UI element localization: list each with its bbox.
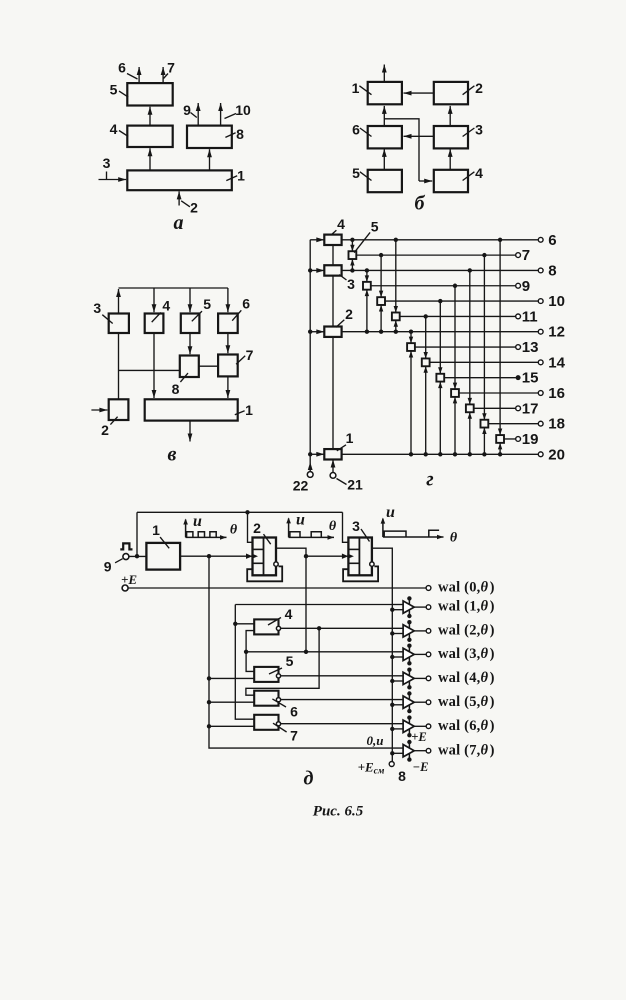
svg-text:3: 3 [347,276,355,292]
svg-text:+Eсм: +Eсм [358,760,385,777]
svg-text:u: u [296,512,305,529]
svg-text:5: 5 [110,82,118,98]
svg-text:1: 1 [237,168,245,184]
svg-text:2: 2 [475,80,483,96]
svg-text:2: 2 [101,422,109,438]
svg-text:21: 21 [347,477,363,493]
svg-text:Рис. 6.5: Рис. 6.5 [313,804,364,820]
svg-text:6: 6 [548,232,556,249]
svg-text:wal (6,θ ): wal (6,θ ) [438,718,495,734]
svg-text:9: 9 [183,102,191,118]
svg-text:3: 3 [93,300,101,316]
svg-text:4: 4 [162,298,170,314]
svg-text:2: 2 [253,520,261,536]
svg-text:4: 4 [475,165,483,181]
svg-text:д: д [304,768,314,790]
svg-text:9: 9 [522,278,530,295]
svg-text:2: 2 [345,306,353,322]
svg-text:8: 8 [236,126,244,142]
svg-text:16: 16 [548,385,565,402]
svg-text:19: 19 [522,431,539,448]
svg-text:θ: θ [230,523,238,538]
svg-text:а: а [174,212,184,234]
svg-text:6: 6 [118,60,126,76]
svg-text:4: 4 [337,216,345,232]
svg-text:5: 5 [352,165,360,181]
svg-text:7: 7 [167,60,175,76]
svg-text:7: 7 [246,347,254,363]
svg-text:14: 14 [548,354,565,371]
svg-text:22: 22 [293,478,309,494]
svg-text:3: 3 [475,122,483,138]
svg-text:wal (4,θ ): wal (4,θ ) [438,670,495,686]
svg-text:3: 3 [352,518,360,534]
svg-text:2: 2 [190,200,198,216]
svg-text:9: 9 [104,559,112,575]
svg-text:u: u [193,513,202,530]
svg-text:1: 1 [352,80,360,96]
svg-text:1: 1 [245,402,253,418]
svg-text:8: 8 [398,768,406,784]
svg-text:wal (2,θ ): wal (2,θ ) [438,623,495,639]
svg-text:4: 4 [110,121,118,137]
svg-text:wal (0,θ ): wal (0,θ ) [438,580,495,596]
svg-text:4: 4 [285,606,293,622]
svg-text:12: 12 [548,324,565,341]
svg-text:7: 7 [290,728,298,744]
svg-text:wal (3,θ ): wal (3,θ ) [438,646,495,662]
svg-text:5: 5 [371,219,379,235]
svg-text:5: 5 [203,296,211,312]
svg-text:1: 1 [346,430,354,446]
svg-text:8: 8 [548,262,556,279]
svg-text:6: 6 [290,704,298,720]
svg-text:10: 10 [235,102,251,118]
svg-text:wal (1,θ ): wal (1,θ ) [438,599,495,615]
svg-text:5: 5 [286,653,294,669]
svg-text:0,u: 0,u [367,733,384,748]
svg-text:6: 6 [352,122,360,138]
svg-text:б: б [415,193,426,215]
svg-text:θ: θ [329,519,337,534]
svg-text:7: 7 [522,247,530,264]
svg-text:3: 3 [103,155,111,171]
svg-text:u: u [386,504,395,521]
svg-text:wal (7,θ ): wal (7,θ ) [438,742,495,758]
svg-text:17: 17 [522,400,539,417]
svg-text:13: 13 [522,339,539,356]
svg-text:20: 20 [548,446,565,463]
svg-text:6: 6 [242,296,250,312]
svg-text:11: 11 [522,308,538,325]
svg-text:18: 18 [548,416,565,433]
svg-text:1: 1 [152,522,160,538]
svg-text:θ: θ [450,531,458,546]
svg-text:8: 8 [172,381,180,397]
svg-text:10: 10 [548,293,565,310]
svg-text:г: г [426,469,433,491]
svg-text:wal (5,θ ): wal (5,θ ) [438,694,495,710]
svg-text:+E: +E [411,730,426,744]
svg-text:в: в [168,444,177,466]
svg-text:15: 15 [522,370,539,387]
svg-text:−E: −E [413,760,429,774]
